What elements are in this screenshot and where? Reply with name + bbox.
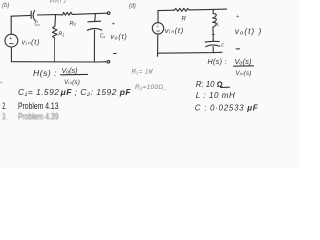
svg-text:c: c xyxy=(221,42,224,48)
wire top-left horizontal (b) xyxy=(11,14,31,17)
source Vin (b) xyxy=(5,34,18,47)
svg-text:vι̇ν(t˘): vι̇ν(t˘) xyxy=(50,0,67,5)
svg-text:vₒ(t) ): vₒ(t) ) xyxy=(235,26,263,36)
svg-text:+: + xyxy=(156,24,159,29)
wire left vertical (d) xyxy=(157,11,159,23)
source Vin (d) xyxy=(152,23,163,34)
svg-text:+: + xyxy=(236,14,239,20)
wire bottom (d) xyxy=(158,51,222,54)
svg-text:C₁: C₁ xyxy=(35,22,41,28)
svg-text:R₂=100Ω_: R₂=100Ω_ xyxy=(135,84,167,91)
svg-text:H(s) :: H(s) : xyxy=(208,57,227,66)
wire L to C (d) xyxy=(212,27,214,41)
resistor R1 xyxy=(54,15,57,27)
terminal bottom-right (b) xyxy=(107,60,110,63)
svg-text:+: + xyxy=(112,22,115,28)
wire top (d) left part xyxy=(158,9,174,11)
svg-text:3.: 3. xyxy=(2,110,7,121)
svg-text:C₂: C₂ xyxy=(100,34,106,40)
stray mark left edge xyxy=(0,81,2,83)
svg-text:(b): (b) xyxy=(2,3,9,9)
capacitor C (d) xyxy=(205,40,219,43)
svg-text:Vₒ(s): Vₒ(s) xyxy=(234,57,252,66)
svg-text:L : 10 mH: L : 10 mH xyxy=(196,91,236,100)
wire bottom (b) xyxy=(11,61,107,63)
svg-text:vᵢₙ(t): vᵢₙ(t) xyxy=(22,40,41,47)
wire below source (b) xyxy=(10,47,12,62)
wire C1 to R1 node xyxy=(38,14,56,16)
svg-text:C : 0·02533 μF: C : 0·02533 μF xyxy=(195,103,259,112)
svg-text:2.: 2. xyxy=(2,100,7,111)
svg-text:R₂: R₂ xyxy=(70,21,77,27)
svg-text:vᵢₙ(t): vᵢₙ(t) xyxy=(165,26,184,35)
resistor R (d) xyxy=(174,8,189,11)
resistor R2 xyxy=(56,12,73,15)
svg-text:H(s) :: H(s) : xyxy=(33,68,57,78)
wire left vertical (b) xyxy=(10,16,12,34)
terminal top-right (b) xyxy=(107,12,110,15)
svg-text:L: L xyxy=(217,21,220,26)
svg-text:Vᵢₙ(s): Vᵢₙ(s) xyxy=(64,79,80,86)
minus output (d) xyxy=(236,48,240,50)
svg-text:Vᵢₙ(s): Vᵢₙ(s) xyxy=(236,70,252,77)
wire R to end (d) xyxy=(189,8,226,11)
inductor L (d) xyxy=(212,9,214,13)
svg-text:R: R xyxy=(182,17,187,23)
svg-text:R₁= 1k̸: R₁= 1k̸ xyxy=(132,68,154,76)
svg-text:vₒ(t): vₒ(t) xyxy=(110,32,127,41)
svg-text:R: 10 Ω: R: 10 Ω xyxy=(196,80,223,89)
svg-text:+: + xyxy=(9,36,12,42)
wire R2 to node/terminal xyxy=(72,13,107,14)
node C2 stem xyxy=(94,14,97,21)
svg-text:Vₒ(s): Vₒ(s) xyxy=(62,66,78,75)
wire below source (d) xyxy=(156,34,158,56)
capacitor C2 xyxy=(88,20,101,23)
minus output (b) xyxy=(114,52,116,54)
svg-text:Problem 4.13: Problem 4.13 xyxy=(18,100,59,111)
capacitor C1 xyxy=(30,11,32,18)
svg-text:C₁= 1.592 μF ; C₂: 1592 pF: C₁= 1.592 μF ; C₂: 1592 pF xyxy=(18,87,131,97)
svg-text:(d): (d) xyxy=(129,3,136,9)
svg-text:R₁: R₁ xyxy=(58,31,64,37)
svg-text:Problem 4.39: Problem 4.39 xyxy=(18,110,59,121)
